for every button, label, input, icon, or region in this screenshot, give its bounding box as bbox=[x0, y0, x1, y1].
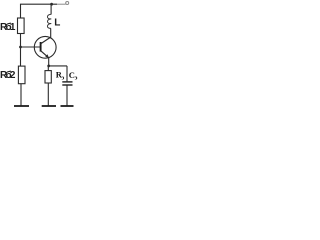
wire Re top lead bbox=[47, 66, 49, 71]
svg-text:Rб2: Rб2 bbox=[0, 69, 16, 81]
wire Ce bottom lead bbox=[66, 86, 68, 106]
node junction dot emitter bbox=[47, 65, 50, 68]
inductor L coil bbox=[47, 14, 51, 28]
wire Re bottom lead bbox=[47, 83, 49, 106]
wire base lead bbox=[21, 46, 41, 48]
node junction dot at inductor top bbox=[50, 3, 53, 6]
svg-text:L: L bbox=[54, 18, 60, 29]
svg-text:э: э bbox=[75, 75, 78, 82]
ground bar right bbox=[61, 105, 74, 107]
terminal output circle top right bbox=[66, 2, 69, 5]
ground bar left bbox=[14, 105, 29, 107]
wire emitter vertical bbox=[48, 58, 50, 66]
node junction dot base bbox=[19, 46, 22, 49]
resistor R61 body bbox=[18, 18, 25, 34]
transistor emitter stroke with arrow bbox=[41, 51, 49, 58]
wire left vertical upper bbox=[20, 4, 22, 18]
wire emitter branch horizontal bbox=[49, 65, 67, 67]
wire left vertical lower bbox=[20, 84, 22, 106]
ground bar middle bbox=[42, 105, 56, 107]
wire top rail bbox=[21, 3, 58, 5]
wire top rail faded right segment bbox=[57, 3, 66, 5]
capacitor Ce top plate bbox=[62, 81, 72, 83]
transistor VT1 circle bbox=[34, 36, 56, 58]
wire left vertical middle bbox=[20, 34, 22, 67]
transistor base bar bbox=[40, 42, 42, 52]
wire inductor top lead bbox=[50, 4, 52, 14]
svg-text:э: э bbox=[62, 74, 65, 81]
wire Ce top lead bbox=[66, 66, 68, 82]
resistor R62 body bbox=[18, 66, 25, 84]
capacitor Ce bottom plate bbox=[62, 84, 72, 86]
resistor Re body bbox=[45, 71, 51, 83]
wire collector vertical bbox=[50, 28, 52, 37]
transistor collector stroke bbox=[41, 37, 51, 43]
svg-text:Rб1: Rб1 bbox=[0, 21, 16, 33]
